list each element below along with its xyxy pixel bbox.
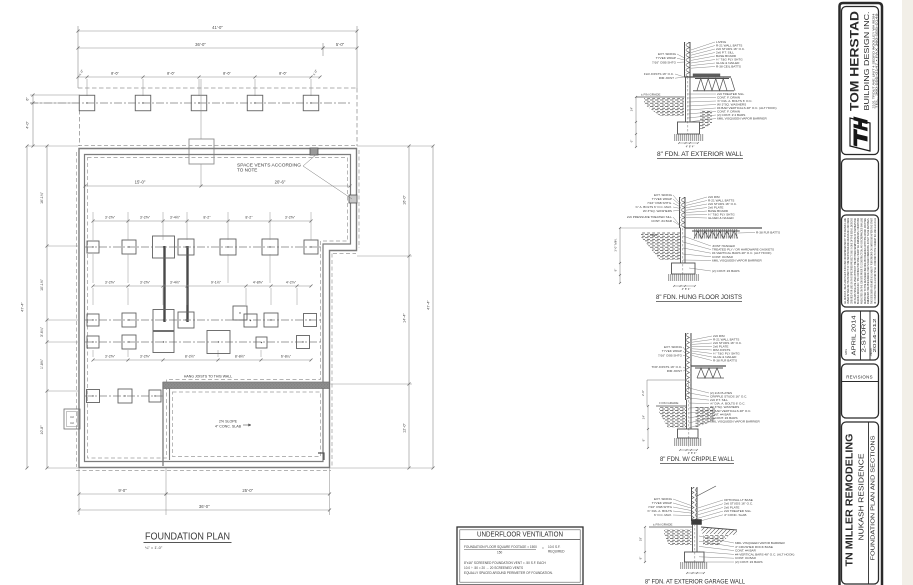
svg-text:9'-0": 9'-0"	[118, 488, 127, 493]
svg-text:HANG JOISTS TO THIS WALL: HANG JOISTS TO THIS WALL	[184, 375, 232, 379]
svg-text:36'-0": 36'-0"	[195, 42, 206, 47]
svg-text:41'-0": 41'-0"	[212, 25, 223, 30]
svg-text:150: 150	[497, 551, 502, 555]
svg-text:3'-2⅝": 3'-2⅝"	[140, 355, 151, 359]
svg-text:10.0 S.F.: 10.0 S.F.	[548, 545, 561, 549]
svg-text:6'-8¼": 6'-8¼"	[281, 355, 292, 359]
svg-text:8"x16" SCREENED FOUNDATION VEN: 8"x16" SCREENED FOUNDATION VENT = .50 S.…	[464, 561, 547, 565]
svg-text:24": 24"	[642, 415, 646, 419]
svg-text:16'-0": 16'-0"	[403, 195, 407, 205]
svg-text:3'-2⅝": 3'-2⅝"	[105, 216, 116, 220]
svg-text:10'-8": 10'-8"	[40, 425, 44, 435]
svg-text:OF CONSTRUCTION. ALL WORK SHAL: OF CONSTRUCTION. ALL WORK SHALL CONFORM …	[874, 217, 877, 304]
svg-text:± FIN GRADE: ± FIN GRADE	[653, 523, 672, 527]
svg-text:FOUNDATION PLAN: FOUNDATION PLAN	[145, 531, 230, 543]
svg-text:GLUED & NAILED: GLUED & NAILED	[708, 216, 734, 220]
svg-text:3'-4½": 3'-4½"	[170, 216, 181, 220]
svg-text:8'-6": 8'-6"	[279, 71, 288, 76]
svg-text:± FIN GRADE: ± FIN GRADE	[659, 401, 678, 405]
svg-text:RIM JOIST: RIM JOIST	[667, 369, 682, 373]
svg-text:4'-2⅞": 4'-2⅞"	[286, 281, 297, 285]
svg-text:CONT. #4 BAR: CONT. #4 BAR	[651, 219, 673, 223]
svg-text:6' O.C. MAX.: 6' O.C. MAX.	[654, 513, 672, 517]
svg-text:2-STORY: 2-STORY	[862, 317, 868, 352]
svg-text:(2) CONT. #4 BARS: (2) CONT. #4 BARS	[712, 269, 740, 273]
svg-text:4" 8" 4": 4" 8" 4"	[682, 287, 691, 291]
svg-text:3'-4½": 3'-4½"	[170, 281, 181, 285]
svg-text:2014-012: 2014-012	[872, 318, 878, 353]
svg-text:36'-0": 36'-0"	[199, 504, 210, 509]
svg-text:47'-4": 47'-4"	[21, 302, 25, 312]
svg-text:3-0: 3-0	[70, 421, 74, 425]
svg-text:8'-6": 8'-6"	[167, 71, 176, 76]
svg-text:2'-0": 2'-0"	[641, 390, 645, 396]
svg-text:3'-2⅝": 3'-2⅝"	[140, 216, 151, 220]
svg-text:TEL. 360-555-0147 • FAX 360-: TEL. 360-555-0147 • FAX 360-555-0149	[875, 12, 878, 108]
svg-text:5'-0": 5'-0"	[336, 42, 345, 47]
svg-text:R-38 CEIL BATTS: R-38 CEIL BATTS	[716, 65, 741, 69]
svg-text:REQUIRED: REQUIRED	[548, 550, 565, 554]
svg-text:6MIL VISQUEEN VAPOR BARRIER: 6MIL VISQUEEN VAPOR BARRIER	[717, 117, 767, 121]
svg-text:3'-2⅝": 3'-2⅝"	[105, 355, 116, 359]
svg-text:TO NOTE: TO NOTE	[237, 168, 257, 173]
svg-text:± FIN GRADE: ± FIN GRADE	[641, 93, 660, 97]
svg-text:FOUNDATION FLOOR SQUARE FOOTAG: FOUNDATION FLOOR SQUARE FOOTAGE = 1500	[464, 545, 537, 549]
svg-text:EQUALLY SPACED AROUND PERIMETE: EQUALLY SPACED AROUND PERIMETER OF FOUND…	[464, 571, 553, 575]
svg-text:20'-6": 20'-6"	[275, 180, 286, 185]
svg-text:AREA: AREA	[650, 233, 657, 237]
svg-text:(2) CONT. #4 BARS: (2) CONT. #4 BARS	[735, 560, 763, 564]
svg-text:8" FDN. AT EXTERIOR WALL: 8" FDN. AT EXTERIOR WALL	[657, 151, 743, 158]
svg-text:8": 8"	[642, 439, 646, 442]
svg-text:TOM HERSTAD: TOM HERSTAD	[848, 11, 862, 111]
svg-text:¼" = 1'-0": ¼" = 1'-0"	[145, 545, 163, 550]
svg-text:4'-0": 4'-0"	[26, 121, 30, 129]
svg-text:47'-4": 47'-4"	[427, 300, 431, 310]
svg-text:4" CONC. SLAB: 4" CONC. SLAB	[215, 425, 242, 429]
svg-text:18": 18"	[639, 537, 643, 541]
svg-text:4" CONC. SLAB: 4" CONC. SLAB	[724, 513, 746, 517]
svg-text:APRIL 2014: APRIL 2014	[852, 315, 858, 355]
svg-text:12'-0": 12'-0"	[403, 423, 407, 433]
svg-text:R-38 FLR BATTS: R-38 FLR BATTS	[713, 359, 737, 363]
svg-text:8'-6": 8'-6"	[111, 71, 120, 76]
svg-text:3'-6¼": 3'-6¼"	[40, 326, 44, 337]
svg-text:3'-0" MIN.: 3'-0" MIN.	[614, 238, 618, 251]
svg-text:15'-0": 15'-0"	[135, 180, 146, 185]
svg-text:3'-2⅝": 3'-2⅝"	[140, 281, 151, 285]
svg-text:8'-2": 8'-2"	[203, 216, 211, 220]
svg-text:6MIL VISQUEEN VAPOR BARRIER: 6MIL VISQUEEN VAPOR BARRIER	[710, 419, 760, 423]
svg-text:=: =	[542, 546, 544, 550]
svg-text:7/16" OSB SHTG: 7/16" OSB SHTG	[652, 60, 677, 64]
svg-text:3'-2⅝": 3'-2⅝"	[285, 216, 296, 220]
svg-text:9'-1½": 9'-1½"	[211, 281, 222, 285]
svg-text:3'-2⅝": 3'-2⅝"	[105, 281, 116, 285]
svg-text:REVISIONS: REVISIONS	[846, 375, 873, 380]
svg-text:8" FDN. W/ CRIPPLE WALL: 8" FDN. W/ CRIPPLE WALL	[660, 456, 734, 463]
svg-text:8": 8"	[614, 269, 618, 272]
svg-text:BUILDING DESIGN INC.: BUILDING DESIGN INC.	[864, 11, 871, 110]
svg-text:FOUNDATION PLAN AND SECTIONS: FOUNDATION PLAN AND SECTIONS	[870, 435, 876, 561]
svg-text:8'-2": 8'-2"	[245, 216, 253, 220]
svg-text:4" 8" 4": 4" 8" 4"	[688, 451, 697, 455]
svg-text:10'-1⅝": 10'-1⅝"	[40, 278, 44, 291]
svg-text:7/16" OSB SHTG: 7/16" OSB SHTG	[658, 353, 683, 357]
svg-text:RIM JOIST: RIM JOIST	[659, 76, 674, 80]
svg-text:4" 8" 4": 4" 8" 4"	[686, 145, 695, 149]
svg-text:W/ 3"SQ. WASHERS: W/ 3"SQ. WASHERS	[643, 209, 672, 213]
svg-text:8'-6": 8'-6"	[223, 71, 232, 76]
svg-text:8": 8"	[639, 557, 643, 560]
svg-text:10.0 ÷ .50 = 20 → 20 SCR: 10.0 ÷ .50 = 20 → 20 SCREENED VENTS	[464, 566, 523, 570]
svg-text:16'-1¾": 16'-1¾"	[40, 191, 44, 204]
svg-text:3-0: 3-0	[70, 415, 74, 419]
svg-text:2% SLOPE: 2% SLOPE	[219, 420, 238, 424]
svg-text:6": 6"	[630, 140, 634, 143]
svg-text:25'-0": 25'-0"	[242, 488, 253, 493]
svg-text:8" FDN. HUNG FLOOR JOISTS: 8" FDN. HUNG FLOOR JOISTS	[656, 294, 742, 301]
svg-text:8" FDN. AT EXTERIOR GARAGE WAL: 8" FDN. AT EXTERIOR GARAGE WALL	[645, 579, 745, 585]
svg-text:8'-2½": 8'-2½"	[185, 355, 196, 359]
svg-text:TN MILLER REMODELING: TN MILLER REMODELING	[845, 433, 856, 566]
svg-text:14'-4": 14'-4"	[403, 313, 407, 323]
svg-text:UNDERFLOOR VENTILATION: UNDERFLOOR VENTILATION	[477, 532, 563, 539]
svg-text:1'-8⅝": 1'-8⅝"	[40, 358, 44, 369]
svg-text:4'-8⅝": 4'-8⅝"	[253, 281, 264, 285]
svg-text:8'-8½": 8'-8½"	[235, 355, 246, 359]
svg-text:NUKASH RESIDENCE: NUKASH RESIDENCE	[857, 454, 866, 541]
svg-text:R-38 FLR BATTS: R-38 FLR BATTS	[756, 231, 780, 235]
svg-text:6MIL VISQUEEN VAPOR BARRIER: 6MIL VISQUEEN VAPOR BARRIER	[712, 258, 762, 262]
svg-text:DATE: DATE	[845, 348, 848, 355]
svg-text:24": 24"	[630, 107, 634, 111]
